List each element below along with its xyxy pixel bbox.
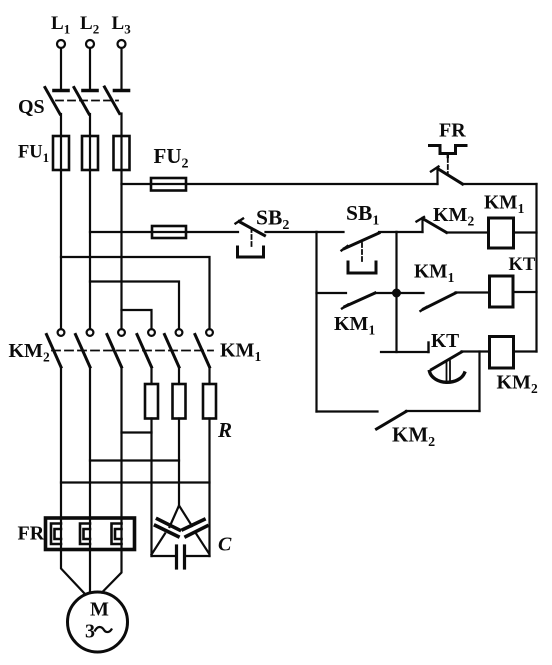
- switch QS pole 3: [105, 87, 129, 114]
- wire motor lead right: [102, 550, 122, 593]
- main contact bank KM2 pole 3: [107, 329, 125, 367]
- svg-text:KT: KT: [431, 331, 459, 352]
- svg-text:QS: QS: [18, 96, 45, 118]
- wire L2 below bank: [89, 367, 91, 518]
- switch QS pole 2: [74, 88, 97, 115]
- fuse FU2 lower: [152, 226, 186, 238]
- main contact bank KM2 pole 1: [47, 329, 65, 367]
- wire L3 tap to contact 4: [122, 310, 152, 329]
- cap right leg: [196, 534, 209, 554]
- wire motor lead left: [61, 550, 84, 594]
- svg-text:KM1: KM1: [484, 193, 525, 217]
- coil KT: [490, 276, 537, 307]
- svg-text:FR: FR: [18, 523, 45, 545]
- wire L1 tap to contact 6: [61, 257, 210, 329]
- main contact bank KM1 pole 2: [165, 329, 183, 367]
- FR heater element 3: [112, 518, 122, 550]
- svg-text:C: C: [218, 534, 232, 556]
- wire L1 terminal to QS: [60, 48, 62, 89]
- wire FU2a to FR contact: [186, 183, 438, 185]
- contact KM1 NO self-hold (row 2 left): [317, 293, 397, 309]
- wire L3 tap to FU2a: [122, 183, 152, 185]
- wire R1 down to capacitor left: [150, 419, 152, 557]
- wire motor lead middle: [89, 550, 91, 593]
- contact KM1 NO (row 2 right): [397, 293, 490, 312]
- cap right plates: [183, 520, 204, 530]
- coil KM1: [489, 218, 537, 248]
- svg-text:KT: KT: [509, 255, 536, 275]
- wire L2 terminal to QS: [89, 48, 91, 89]
- node L3 terminal: [118, 40, 126, 48]
- resistor R3: [203, 384, 216, 419]
- wire junction vertical SB1 to dot: [395, 232, 397, 352]
- wire jog R2 to L2: [90, 459, 179, 461]
- contact FR NC: [431, 167, 537, 185]
- svg-text:KM1: KM1: [334, 313, 375, 338]
- relay FR heater box: [46, 518, 135, 550]
- capacitor assembly C: [152, 506, 210, 569]
- svg-text:SB1: SB1: [346, 201, 379, 229]
- wire L2 tap to FU2b: [90, 231, 152, 233]
- svg-text:KM2: KM2: [433, 204, 474, 229]
- wire L2 bus down: [89, 170, 91, 329]
- wire contact6 to R3: [208, 367, 210, 384]
- wire contact4 to R1: [150, 367, 152, 384]
- svg-text:R: R: [217, 418, 232, 442]
- svg-text:KM2: KM2: [9, 340, 50, 365]
- node L1 terminal: [57, 40, 65, 48]
- wire FU2b to SB2: [186, 231, 238, 233]
- svg-text:M: M: [90, 599, 109, 621]
- svg-text:KM2: KM2: [392, 423, 435, 451]
- wire L3 bus down: [120, 170, 122, 329]
- cap bottom bar: [152, 555, 177, 557]
- cap bottom plates: [175, 546, 178, 568]
- svg-text:KM1: KM1: [220, 340, 261, 365]
- resistor R1: [145, 384, 158, 419]
- svg-text:KM2: KM2: [497, 372, 538, 397]
- relay FR trip element (top right): [430, 146, 467, 174]
- wire R2 down to capacitor middle: [178, 419, 180, 506]
- svg-text:FU1: FU1: [18, 143, 49, 166]
- motor M: [68, 592, 128, 652]
- fuse FU1 element 1: [53, 136, 69, 170]
- wire jog R3 to L1: [61, 481, 210, 483]
- wire L1 bus down: [60, 170, 62, 329]
- wire QS to FU1 pole2: [89, 114, 91, 136]
- wire SB2 to left rail: [266, 231, 317, 233]
- cap apex: [170, 506, 193, 528]
- wire R3 down to capacitor right: [208, 419, 210, 557]
- wire left control rail: [315, 232, 317, 412]
- switch QS pole 1: [45, 88, 68, 115]
- wire jog R1 to L3: [122, 431, 152, 433]
- svg-text:3: 3: [85, 621, 95, 643]
- coil KM2: [490, 337, 537, 369]
- svg-text:L2: L2: [80, 13, 99, 37]
- fuse FU1 element 2: [82, 136, 98, 170]
- contact KM2 NO self-hold (bottom row): [317, 352, 480, 430]
- wire L3 terminal to QS: [120, 48, 122, 89]
- QS linkage dashed: [56, 100, 118, 102]
- contact KT NO delayed (row 3): [381, 343, 490, 383]
- cap left plates: [158, 519, 180, 530]
- svg-text:SB2: SB2: [256, 206, 289, 234]
- wire contact5 to R2: [178, 367, 180, 384]
- wire L1 below bank: [60, 367, 62, 518]
- contact KM2 NC (interlock, row 1): [397, 217, 489, 233]
- pushbutton SB1 (NO start): [317, 232, 397, 273]
- wire L2 tap to contact 5: [90, 282, 179, 330]
- fuse FU2 upper: [151, 178, 186, 191]
- main contact bank KM1 pole 1: [137, 329, 155, 367]
- wire L3 below bank: [120, 367, 122, 518]
- pushbutton SB2 (NC stop): [236, 219, 265, 258]
- FR heater element 2: [80, 518, 90, 550]
- wire right rail: [535, 184, 537, 352]
- contact bank linkage dashed: [52, 350, 213, 352]
- fuse FU1 element 3: [114, 136, 130, 170]
- FR heater element 1: [51, 518, 61, 550]
- svg-text:FR: FR: [439, 120, 466, 142]
- wire QS to FU1 pole1: [60, 114, 62, 136]
- cap left leg: [152, 534, 166, 555]
- svg-text:L1: L1: [51, 13, 70, 37]
- node junction dot: [393, 290, 400, 297]
- main contact bank KM1 pole 3: [195, 329, 213, 367]
- node L2 terminal: [86, 40, 94, 48]
- resistor R2: [173, 384, 186, 419]
- svg-text:KM1: KM1: [414, 262, 455, 286]
- svg-text:L3: L3: [112, 13, 132, 37]
- wire QS to FU1 pole3: [120, 114, 122, 137]
- svg-text:FU2: FU2: [154, 144, 189, 172]
- main contact bank KM2 pole 2: [76, 329, 94, 367]
